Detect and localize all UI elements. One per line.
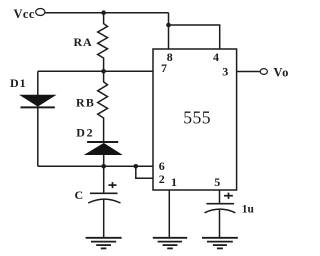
wire threshold rail — [38, 165, 153, 167]
wire Vcc top rail — [45, 12, 169, 14]
diode D2 — [76, 126, 121, 167]
wire pin2 step — [136, 166, 153, 178]
svg-text:Vcc: Vcc — [14, 7, 35, 21]
svg-text:1u: 1u — [242, 203, 255, 215]
svg-text:C: C — [75, 188, 84, 202]
wire pin4 branch — [169, 25, 220, 49]
wire pin7 rail — [38, 70, 153, 72]
svg-text:D1: D1 — [10, 76, 27, 90]
svg-text:555: 555 — [183, 108, 211, 128]
svg-text:D2: D2 — [76, 126, 94, 140]
svg-text:2: 2 — [159, 172, 165, 186]
node RA RB D1 pin7 junction — [101, 69, 106, 74]
resistor RB — [76, 71, 108, 142]
Vcc terminal — [14, 7, 45, 21]
capacitor C — [75, 166, 121, 237]
svg-text:8: 8 — [167, 50, 173, 64]
svg-text:RA: RA — [74, 35, 93, 49]
svg-text:Vo: Vo — [274, 65, 290, 79]
node RA top junction — [101, 10, 106, 15]
wire pin8 drop — [168, 13, 170, 49]
svg-text:7: 7 — [161, 61, 167, 75]
svg-text:3: 3 — [222, 65, 228, 79]
ground middle — [153, 238, 187, 249]
capacitor C2 1u — [205, 190, 255, 237]
svg-text:RB: RB — [76, 95, 95, 109]
ground left — [86, 238, 122, 249]
svg-text:4: 4 — [213, 50, 219, 64]
wire pin3 output — [237, 71, 260, 73]
svg-text:1: 1 — [171, 175, 177, 189]
node pin2 junction — [134, 164, 139, 169]
svg-text:5: 5 — [214, 175, 220, 189]
IC U1 555 — [153, 49, 237, 190]
node C junction — [101, 164, 106, 169]
wire pin1 ground drop — [168, 190, 170, 237]
Vo terminal — [260, 65, 289, 79]
diode D1 — [10, 71, 55, 166]
svg-text:6: 6 — [159, 159, 165, 173]
resistor RA — [74, 13, 108, 72]
node pin4 branch junction — [166, 23, 171, 28]
ground right — [202, 238, 238, 249]
